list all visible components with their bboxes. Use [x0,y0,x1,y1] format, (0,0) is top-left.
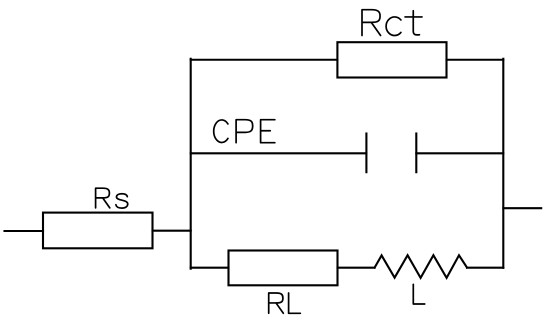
wire: left vertical bus (node A) [190,59,192,269]
resistor RL [229,251,338,286]
wire: CPE branch left segment [191,152,367,154]
wire: Rs to left node [153,230,191,232]
wire: right vertical bus (node B) [502,59,504,268]
wire: left input stub [5,230,44,232]
label Rs [96,188,128,208]
resistor Rs [43,213,153,249]
inductor L (zigzag) [375,255,467,278]
wire: right output stub [503,207,541,209]
label RL [269,293,301,313]
wire: CPE branch right segment [416,152,503,154]
wire: bottom branch, left node to RL [191,267,229,269]
wire: top branch left segment [191,59,338,61]
label CPE [214,120,275,143]
label Rct [362,10,422,36]
wire: top branch right segment [447,59,504,61]
wire: inductor to right node [467,267,503,269]
wire: RL to inductor [338,267,375,269]
CPE element (constant phase element plates) [366,134,416,173]
resistor Rct [337,42,446,77]
label L [413,284,424,304]
